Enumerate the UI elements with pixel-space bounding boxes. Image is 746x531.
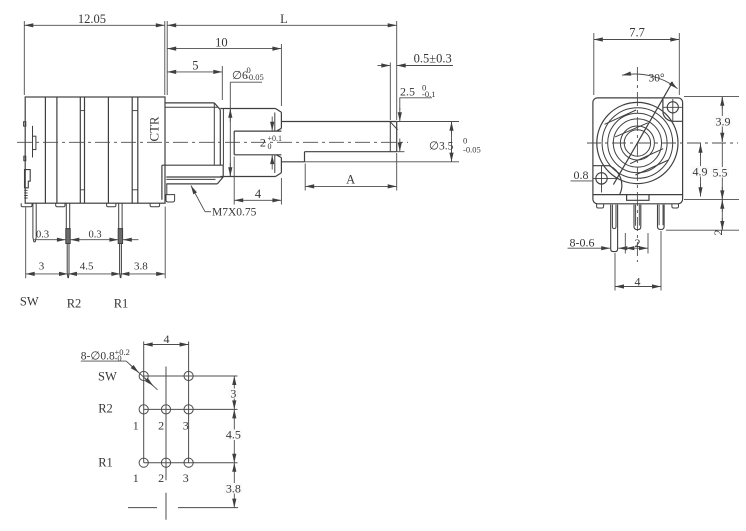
body section line x57 bbox=[56, 97, 58, 203]
hole bottom-left bbox=[596, 173, 607, 184]
dim right vertical 4.5 bbox=[233, 409, 235, 462]
slot left bbox=[233, 131, 235, 155]
svg-text:R2: R2 bbox=[67, 297, 82, 311]
ext A right (shares shaft end) bbox=[396, 153, 398, 191]
svg-text:4.9: 4.9 bbox=[693, 165, 708, 179]
inner tab line bbox=[32, 126, 34, 158]
bushing top outer bbox=[165, 102, 214, 104]
hole bottom-left platform arc bbox=[593, 166, 621, 195]
right foot left bbox=[597, 204, 604, 208]
hole top-right platform bbox=[663, 98, 683, 121]
pad SW1 bbox=[139, 371, 148, 380]
svg-text:4: 4 bbox=[635, 274, 641, 288]
svg-text:-0.1: -0.1 bbox=[422, 89, 435, 99]
bracket band top bbox=[162, 164, 223, 166]
svg-text:0: 0 bbox=[268, 142, 272, 151]
right foot right bbox=[672, 204, 679, 208]
svg-text:A: A bbox=[346, 173, 355, 187]
shaft circle 4 bbox=[613, 119, 661, 167]
right body seat line bbox=[593, 194, 683, 196]
dim 3.8 line bbox=[120, 273, 165, 275]
ext d3.5 top bbox=[397, 121, 459, 123]
shaft end bbox=[396, 122, 398, 152]
svg-text:2: 2 bbox=[711, 230, 725, 236]
pad R2-1 bbox=[139, 405, 148, 414]
angle arc 30 bbox=[622, 74, 678, 89]
pin right inner tick bbox=[659, 205, 663, 226]
dim 5.5 line bbox=[721, 144, 723, 200]
bushing thread bottom inner bbox=[166, 178, 215, 180]
svg-text:3: 3 bbox=[183, 419, 189, 433]
dim 0.5 left arrow bbox=[378, 65, 391, 67]
ext d3.5 bottom bbox=[305, 161, 460, 163]
dim 7.7 line bbox=[594, 39, 680, 41]
pin R2 kink bbox=[66, 229, 70, 244]
pin left inner bbox=[612, 205, 616, 229]
svg-text:3: 3 bbox=[230, 386, 236, 400]
dim right vertical 3 bbox=[233, 376, 235, 409]
bracket band right bbox=[222, 165, 224, 177]
pin SW bbox=[33, 203, 36, 242]
dim 4 top line bbox=[144, 344, 189, 346]
right view vertical centerline bbox=[636, 67, 638, 262]
body pair tick top2 bbox=[132, 110, 138, 112]
svg-text:5.5: 5.5 bbox=[713, 166, 728, 180]
ext flat right bbox=[397, 151, 405, 153]
svg-text:3.9: 3.9 bbox=[716, 115, 731, 129]
shaft circle 5 bbox=[620, 126, 654, 160]
svg-text:0.3: 0.3 bbox=[36, 229, 49, 240]
dim 3.9 arrow up bbox=[721, 97, 723, 109]
slot diagonal bbox=[613, 82, 672, 185]
grid col3 bbox=[188, 342, 190, 463]
svg-text:3.8: 3.8 bbox=[134, 260, 148, 272]
text 3.8 right bbox=[225, 483, 243, 494]
shaft d6 bottom bbox=[220, 176, 275, 178]
flat step bbox=[304, 152, 306, 162]
dim right vertical 3.8 bbox=[233, 463, 235, 508]
dim 4.9 arrow down bbox=[700, 184, 702, 196]
svg-text:-0: -0 bbox=[115, 353, 122, 363]
switch button bbox=[25, 170, 31, 188]
dim 8-0.6 leader bbox=[568, 247, 611, 249]
upper prong inner chamfer bbox=[276, 128, 281, 131]
pad R1-2 bbox=[161, 458, 170, 467]
svg-text:2.5: 2.5 bbox=[400, 84, 415, 98]
left edge bump bbox=[24, 122, 26, 126]
hole top-right bbox=[667, 102, 678, 113]
ext bottom left bbox=[25, 207, 27, 279]
leader M7X0.75 bbox=[205, 211, 211, 213]
svg-text:2: 2 bbox=[158, 419, 164, 433]
foot tab 2 bbox=[56, 203, 65, 207]
slot band lower-right line2 bbox=[635, 160, 668, 175]
body pair tick top bbox=[80, 110, 84, 112]
shaft end chamfer slash bbox=[391, 122, 398, 130]
svg-text:4.5: 4.5 bbox=[226, 428, 241, 442]
svg-text:CTR: CTR bbox=[148, 116, 162, 141]
ext line fork end top bbox=[280, 44, 282, 106]
bushing right edge bbox=[219, 110, 221, 165]
ext dim4 right bbox=[660, 231, 662, 291]
shaft groove bbox=[389, 122, 391, 152]
leader 8-d0.8 diagonal bbox=[126, 361, 157, 390]
dim 2 arrow up bbox=[721, 200, 723, 212]
leader 0.8 underline bbox=[571, 180, 594, 182]
dim 3.9 line bbox=[721, 97, 723, 142]
dim 4 pins line bbox=[615, 286, 661, 288]
prong bottom chamfer bbox=[276, 173, 282, 177]
svg-text:SW: SW bbox=[20, 295, 39, 309]
right body outline bbox=[593, 98, 683, 204]
svg-text:3: 3 bbox=[183, 471, 189, 485]
dim d6 line bbox=[229, 82, 231, 176]
svg-text:1: 1 bbox=[133, 471, 139, 485]
dim 4.9 arrow up bbox=[700, 144, 702, 156]
bushing top inner bbox=[165, 106, 218, 108]
bracket band bottom bbox=[166, 176, 223, 178]
pad SW3 bbox=[184, 371, 193, 380]
shaft circle 2 bbox=[602, 108, 673, 179]
svg-text:∅3.5: ∅3.5 bbox=[429, 141, 454, 153]
svg-text:4: 4 bbox=[255, 187, 262, 201]
grid col2 bottom cross bbox=[165, 493, 167, 520]
dim 3 line bbox=[26, 273, 68, 275]
slot band lower-right line1 bbox=[630, 149, 663, 164]
bracket leg inner bbox=[166, 184, 168, 195]
text 4.5 right (with bg) bbox=[225, 430, 243, 441]
thin shaft top bbox=[281, 121, 396, 123]
svg-text:R1: R1 bbox=[114, 297, 129, 311]
bottom ref line seg2 bbox=[178, 507, 238, 509]
svg-text:0.3: 0.3 bbox=[88, 229, 101, 240]
body section pair x138 bbox=[137, 97, 139, 203]
pin R1 lower bbox=[120, 244, 122, 278]
slot band upper-left line1 bbox=[605, 110, 637, 124]
ext pin shoulder right bbox=[666, 229, 739, 231]
dim d6 arrow down bbox=[229, 163, 231, 176]
svg-text:3: 3 bbox=[39, 260, 45, 272]
ext dim2 right bbox=[647, 233, 649, 254]
pad R2-3 bbox=[184, 405, 193, 414]
body section pair x132 bbox=[131, 97, 133, 203]
svg-text:8-0.6: 8-0.6 bbox=[570, 235, 595, 249]
dim 2.5 arrow top bbox=[399, 108, 401, 121]
svg-text:3.8: 3.8 bbox=[226, 481, 241, 495]
svg-text:L: L bbox=[280, 12, 288, 26]
dim 0.3a line bbox=[34, 239, 66, 241]
dim 2.5 leader bbox=[400, 98, 432, 110]
pad R2-2 bbox=[161, 405, 170, 414]
ext fork4 right bbox=[280, 178, 282, 205]
dim L line bbox=[167, 24, 397, 26]
dim d6 arrow up bbox=[229, 109, 231, 122]
dim d6 leader underline bbox=[230, 81, 262, 83]
ext line body left top bbox=[23, 21, 25, 95]
dim d3.5 line bbox=[451, 122, 453, 162]
body outline bbox=[25, 97, 165, 203]
thin shaft bottom bbox=[281, 161, 304, 163]
ext fork4 left bbox=[233, 157, 235, 205]
right body center tab bbox=[627, 195, 649, 201]
body section line x45 bbox=[44, 97, 46, 203]
dim 4.5 line bbox=[68, 273, 120, 275]
ext 7.7 left bbox=[593, 33, 595, 95]
grid row SW bbox=[144, 375, 238, 377]
svg-text:1: 1 bbox=[133, 419, 139, 433]
dim slot2 arrow bottom bbox=[271, 155, 273, 169]
svg-text:R2: R2 bbox=[98, 401, 113, 415]
lower prong inner chamfer bbox=[276, 155, 281, 158]
svg-text:2: 2 bbox=[260, 135, 266, 149]
centerline left view bbox=[17, 141, 408, 143]
bushing inner vertical bbox=[213, 103, 215, 165]
svg-text:-0.05: -0.05 bbox=[246, 72, 264, 82]
ext line shaft end bbox=[396, 21, 398, 120]
body section line x108 bbox=[107, 97, 109, 203]
pad R1-1 bbox=[139, 458, 148, 467]
pin R2 lower bbox=[67, 244, 69, 278]
bracket chamfer bbox=[217, 177, 223, 184]
ext line body right top bbox=[164, 21, 166, 95]
grid row R1 bbox=[144, 462, 238, 464]
dim 2 line bbox=[721, 200, 723, 231]
dim 2 pins line bbox=[625, 247, 648, 249]
svg-text:R1: R1 bbox=[98, 456, 113, 470]
foot tab 1 bbox=[21, 203, 32, 207]
dim 8-0.6 right arrow bbox=[618, 247, 627, 249]
dim 10 line bbox=[167, 48, 281, 50]
dim A line bbox=[305, 185, 397, 187]
bushing bottom bbox=[166, 183, 217, 185]
dim 0.3a right arrow bbox=[70, 239, 86, 241]
ext bottom right bbox=[164, 207, 166, 279]
body pair tick bottom bbox=[80, 189, 84, 191]
pin right bbox=[658, 205, 665, 230]
hole bottom-left cross bbox=[593, 166, 617, 193]
dim 0.3b line bbox=[86, 239, 118, 241]
dim 5 line bbox=[167, 71, 222, 73]
text 5.5 bbox=[711, 167, 729, 178]
slot bottom bbox=[234, 154, 281, 156]
hole top-right cross bbox=[663, 99, 683, 121]
body section pair x80 bbox=[79, 97, 81, 203]
switch serrations bbox=[24, 190, 27, 198]
shaft circle 6 bbox=[624, 130, 650, 156]
prong chamfer mark lower bbox=[274, 155, 276, 173]
dim 0.5 right arrow bbox=[397, 65, 453, 67]
leader arrowhead 2 bbox=[145, 378, 154, 386]
pad R1-3 bbox=[184, 458, 193, 467]
ext line groove bbox=[389, 63, 391, 121]
leader 8-d0.8 underline bbox=[81, 360, 126, 362]
pin R1 kink bbox=[118, 229, 122, 244]
svg-text:-0.05: -0.05 bbox=[463, 145, 481, 155]
ext body top right bbox=[684, 96, 739, 98]
bushing chamfer top bbox=[214, 103, 220, 110]
svg-text:4.5: 4.5 bbox=[80, 260, 94, 272]
dim slot2 arrow top bbox=[271, 117, 273, 131]
slot top bbox=[234, 130, 281, 132]
upper prong right edge bbox=[280, 112, 282, 128]
dim 2.5 arrow bottom bbox=[399, 139, 401, 152]
pin left outer bbox=[611, 205, 618, 252]
svg-text:4: 4 bbox=[164, 332, 170, 346]
ext seat right bbox=[684, 199, 739, 201]
ext 7.7 right bbox=[678, 33, 680, 95]
dim 0.3b right arrow bbox=[123, 239, 139, 241]
right view horizontal centerline bbox=[587, 142, 738, 144]
ext dim4 left bbox=[614, 253, 616, 291]
text 3 right bbox=[229, 389, 239, 399]
ext A left bbox=[304, 164, 306, 191]
dim 4.9 line bbox=[700, 144, 702, 197]
shaft circle outer bbox=[597, 102, 678, 183]
dim 3.9 arrow down bbox=[721, 130, 723, 142]
svg-text:12.05: 12.05 bbox=[78, 12, 106, 26]
dim 2 arrow down bbox=[721, 218, 723, 230]
svg-text:30°: 30° bbox=[648, 73, 665, 85]
body pair tick bottom2 bbox=[132, 189, 138, 191]
grid col2 upper bbox=[165, 367, 167, 481]
shaft flat bbox=[305, 151, 397, 153]
prong top chamfer bbox=[276, 109, 282, 113]
svg-text:7.7: 7.7 bbox=[629, 26, 645, 40]
text 4.9 bbox=[691, 166, 709, 177]
shaft d6 top bbox=[220, 108, 275, 110]
ext line L start bbox=[166, 21, 168, 95]
ext line bushing end bbox=[221, 66, 223, 100]
bracket left edge bbox=[161, 165, 163, 200]
svg-text:M7X0.75: M7X0.75 bbox=[212, 207, 257, 219]
svg-text:8-∅0.8: 8-∅0.8 bbox=[81, 351, 115, 363]
slot band upper-left line2 bbox=[615, 123, 648, 137]
pin middle inner bbox=[636, 205, 640, 226]
pin R1 upper bbox=[119, 203, 122, 228]
pin R2 upper bbox=[66, 203, 69, 228]
svg-text:0.5±0.3: 0.5±0.3 bbox=[414, 52, 452, 66]
body section pair x84 bbox=[84, 97, 86, 203]
bottom ref line seg1 bbox=[128, 507, 157, 509]
grid col1 bbox=[143, 342, 145, 463]
dim 5.5 arrow down bbox=[721, 187, 723, 199]
grid row R2 bbox=[144, 408, 238, 410]
foot tab 3 bbox=[107, 203, 116, 207]
inner tab rect bbox=[33, 136, 36, 149]
svg-text:5: 5 bbox=[192, 59, 198, 73]
dim fork4 line bbox=[234, 199, 281, 201]
svg-text:10: 10 bbox=[215, 35, 228, 49]
ext dim2 left bbox=[624, 233, 626, 254]
svg-text:0.8: 0.8 bbox=[574, 168, 589, 182]
dim d3.5 arrow down bbox=[451, 149, 453, 162]
shaft circle 3 bbox=[608, 113, 667, 172]
foot tab 4 bbox=[150, 203, 159, 207]
lower prong right edge bbox=[280, 158, 282, 173]
prong chamfer mark upper bbox=[274, 113, 276, 132]
left edge bump 2 bbox=[24, 156, 26, 161]
dim d3.5 arrow up bbox=[451, 122, 453, 134]
dim 12.05 line bbox=[24, 24, 165, 26]
svg-text:SW: SW bbox=[98, 370, 117, 384]
shaft d6 left edge bbox=[222, 109, 224, 166]
pin middle bbox=[634, 205, 641, 230]
svg-text:2: 2 bbox=[158, 471, 164, 485]
svg-text:2: 2 bbox=[635, 236, 641, 250]
bracket foot bbox=[166, 195, 175, 202]
leader arrowhead 1 bbox=[130, 365, 139, 373]
text 3.9 bbox=[714, 116, 732, 127]
